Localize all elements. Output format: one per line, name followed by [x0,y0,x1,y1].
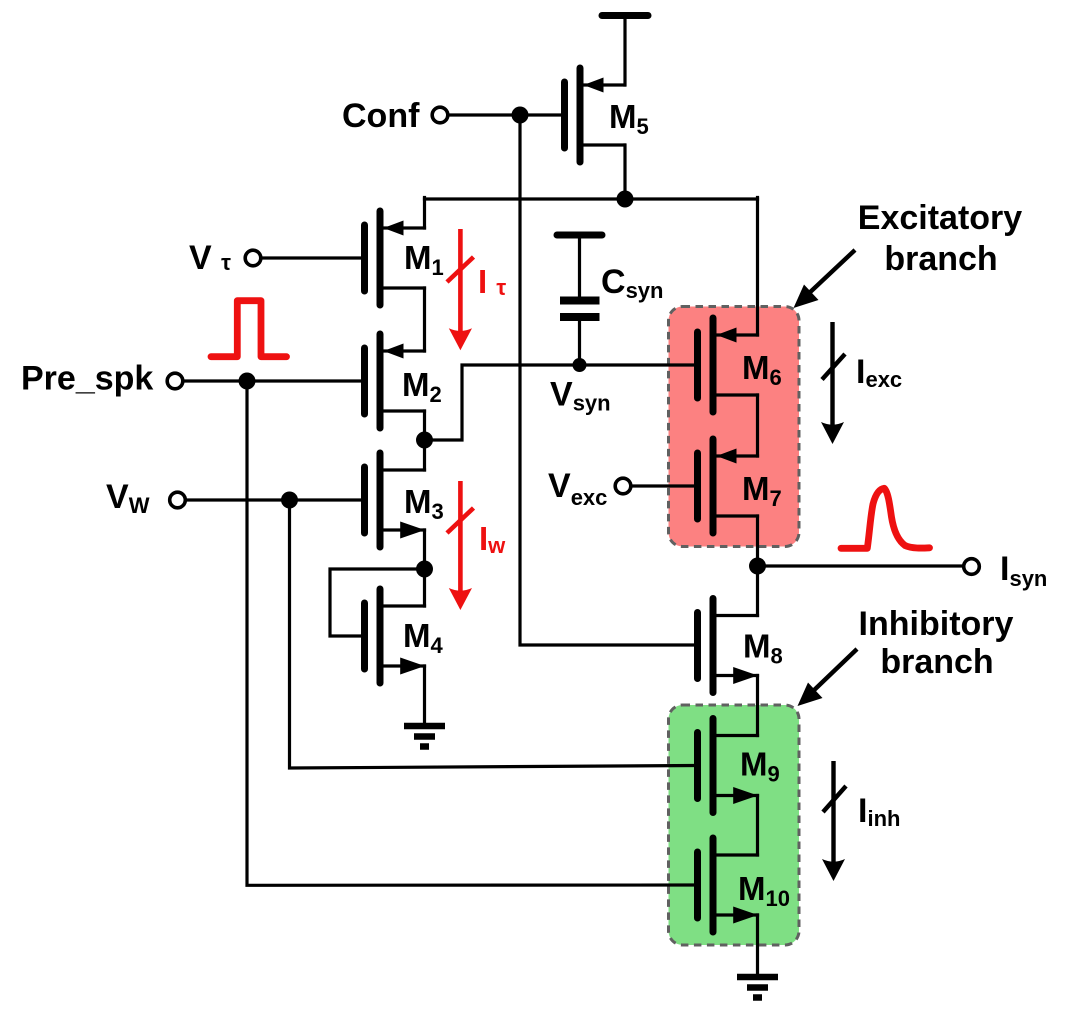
terminal V_tau [245,250,261,266]
red postsynaptic current waveform [841,488,930,548]
wire V_tau to M1 gate [261,256,361,259]
transistor M5 (PMOS) [565,68,625,162]
transistor M9 (NMOS) [698,719,758,813]
transistor M1 (PMOS) [365,211,425,305]
wire V_W to M3 gate [186,498,362,501]
svg-text:Pre_spk: Pre_spk [21,360,153,398]
VDD rail symbol [602,16,648,86]
transistor M10 (NMOS) [698,838,758,932]
transistor M4 (NMOS) [365,589,425,683]
transistor M2 (PMOS) [365,334,425,428]
terminal V_exc [615,478,631,494]
svg-text:Conf: Conf [342,97,420,135]
terminal V_W [170,492,186,508]
wire bus down to M6 source [756,198,759,336]
terminal I_syn [964,559,980,575]
red presynaptic pulse waveform [211,301,287,357]
wire M2 drain to M3 source [423,411,426,470]
wire I_syn node to M8 source [756,566,759,616]
svg-text:branch: branch [880,643,993,681]
svg-text:branch: branch [884,240,997,278]
pointer arrow to excitatory box [794,250,856,308]
wire M7 drain to I_syn node [756,516,759,566]
capacitor C_syn [557,235,602,365]
terminal Conf [432,107,448,123]
ground below M4 [404,726,445,747]
wire M9 drain to M10 source [756,796,759,856]
wire Pre_spk down to M10 gate [247,381,694,885]
junction I_syn node [749,558,766,575]
wire M1 drain to M2 source [423,288,426,351]
junction M5 drain / top bus [617,191,634,208]
wire Conf node down to M8 gate [520,115,694,645]
wire M6 drain to M7 source [756,395,759,456]
terminal Pre_spk [167,373,183,389]
junction Pre_spk node [239,373,256,390]
inhibitory branch highlight box [669,705,800,945]
wire top bus from M1/M5/M6 [425,197,758,200]
wire M4 source to ground [423,666,426,726]
wire M3 drain to M4 drain [423,530,426,606]
wire V_W down to M9 gate [290,500,695,768]
wire I_syn output wire [758,564,964,567]
wire Pre_spk to M2 gate [183,379,361,382]
junction M2 drain node [416,432,433,449]
transistor M7 (PMOS) [698,439,758,533]
wire M10 source to ground [756,915,759,977]
excitatory branch highlight box [669,307,800,547]
transistor M3 (NMOS) [365,453,425,547]
junction V_W node [281,492,298,509]
wire M8 drain to M9 source [756,676,759,736]
svg-text:Inhibitory: Inhibitory [859,605,1014,643]
current arrow I_exc [821,322,845,444]
transistor M6 (PMOS) [698,318,758,412]
current arrow I_tau [447,229,474,350]
current arrow I_inh [822,761,846,881]
junction Conf node [512,107,529,124]
current arrow I_w [447,481,474,610]
wire bus down to M1 source [423,198,426,229]
pointer arrow to inhibitory box [798,649,858,706]
junction M3/M4 drain node [416,561,433,578]
wire node to V_syn and M6 gate [425,365,695,440]
wire M5 drain riser [623,145,626,199]
junction V_syn node [573,358,587,372]
svg-text:Excitatory: Excitatory [858,199,1022,237]
wire Conf to M5 gate [448,113,561,116]
wire M4 gate-drain diode connection [330,569,425,636]
ground below M10 [737,977,778,998]
transistor M8 (NMOS) [698,599,758,693]
wire V_exc to M7 gate [631,484,694,487]
